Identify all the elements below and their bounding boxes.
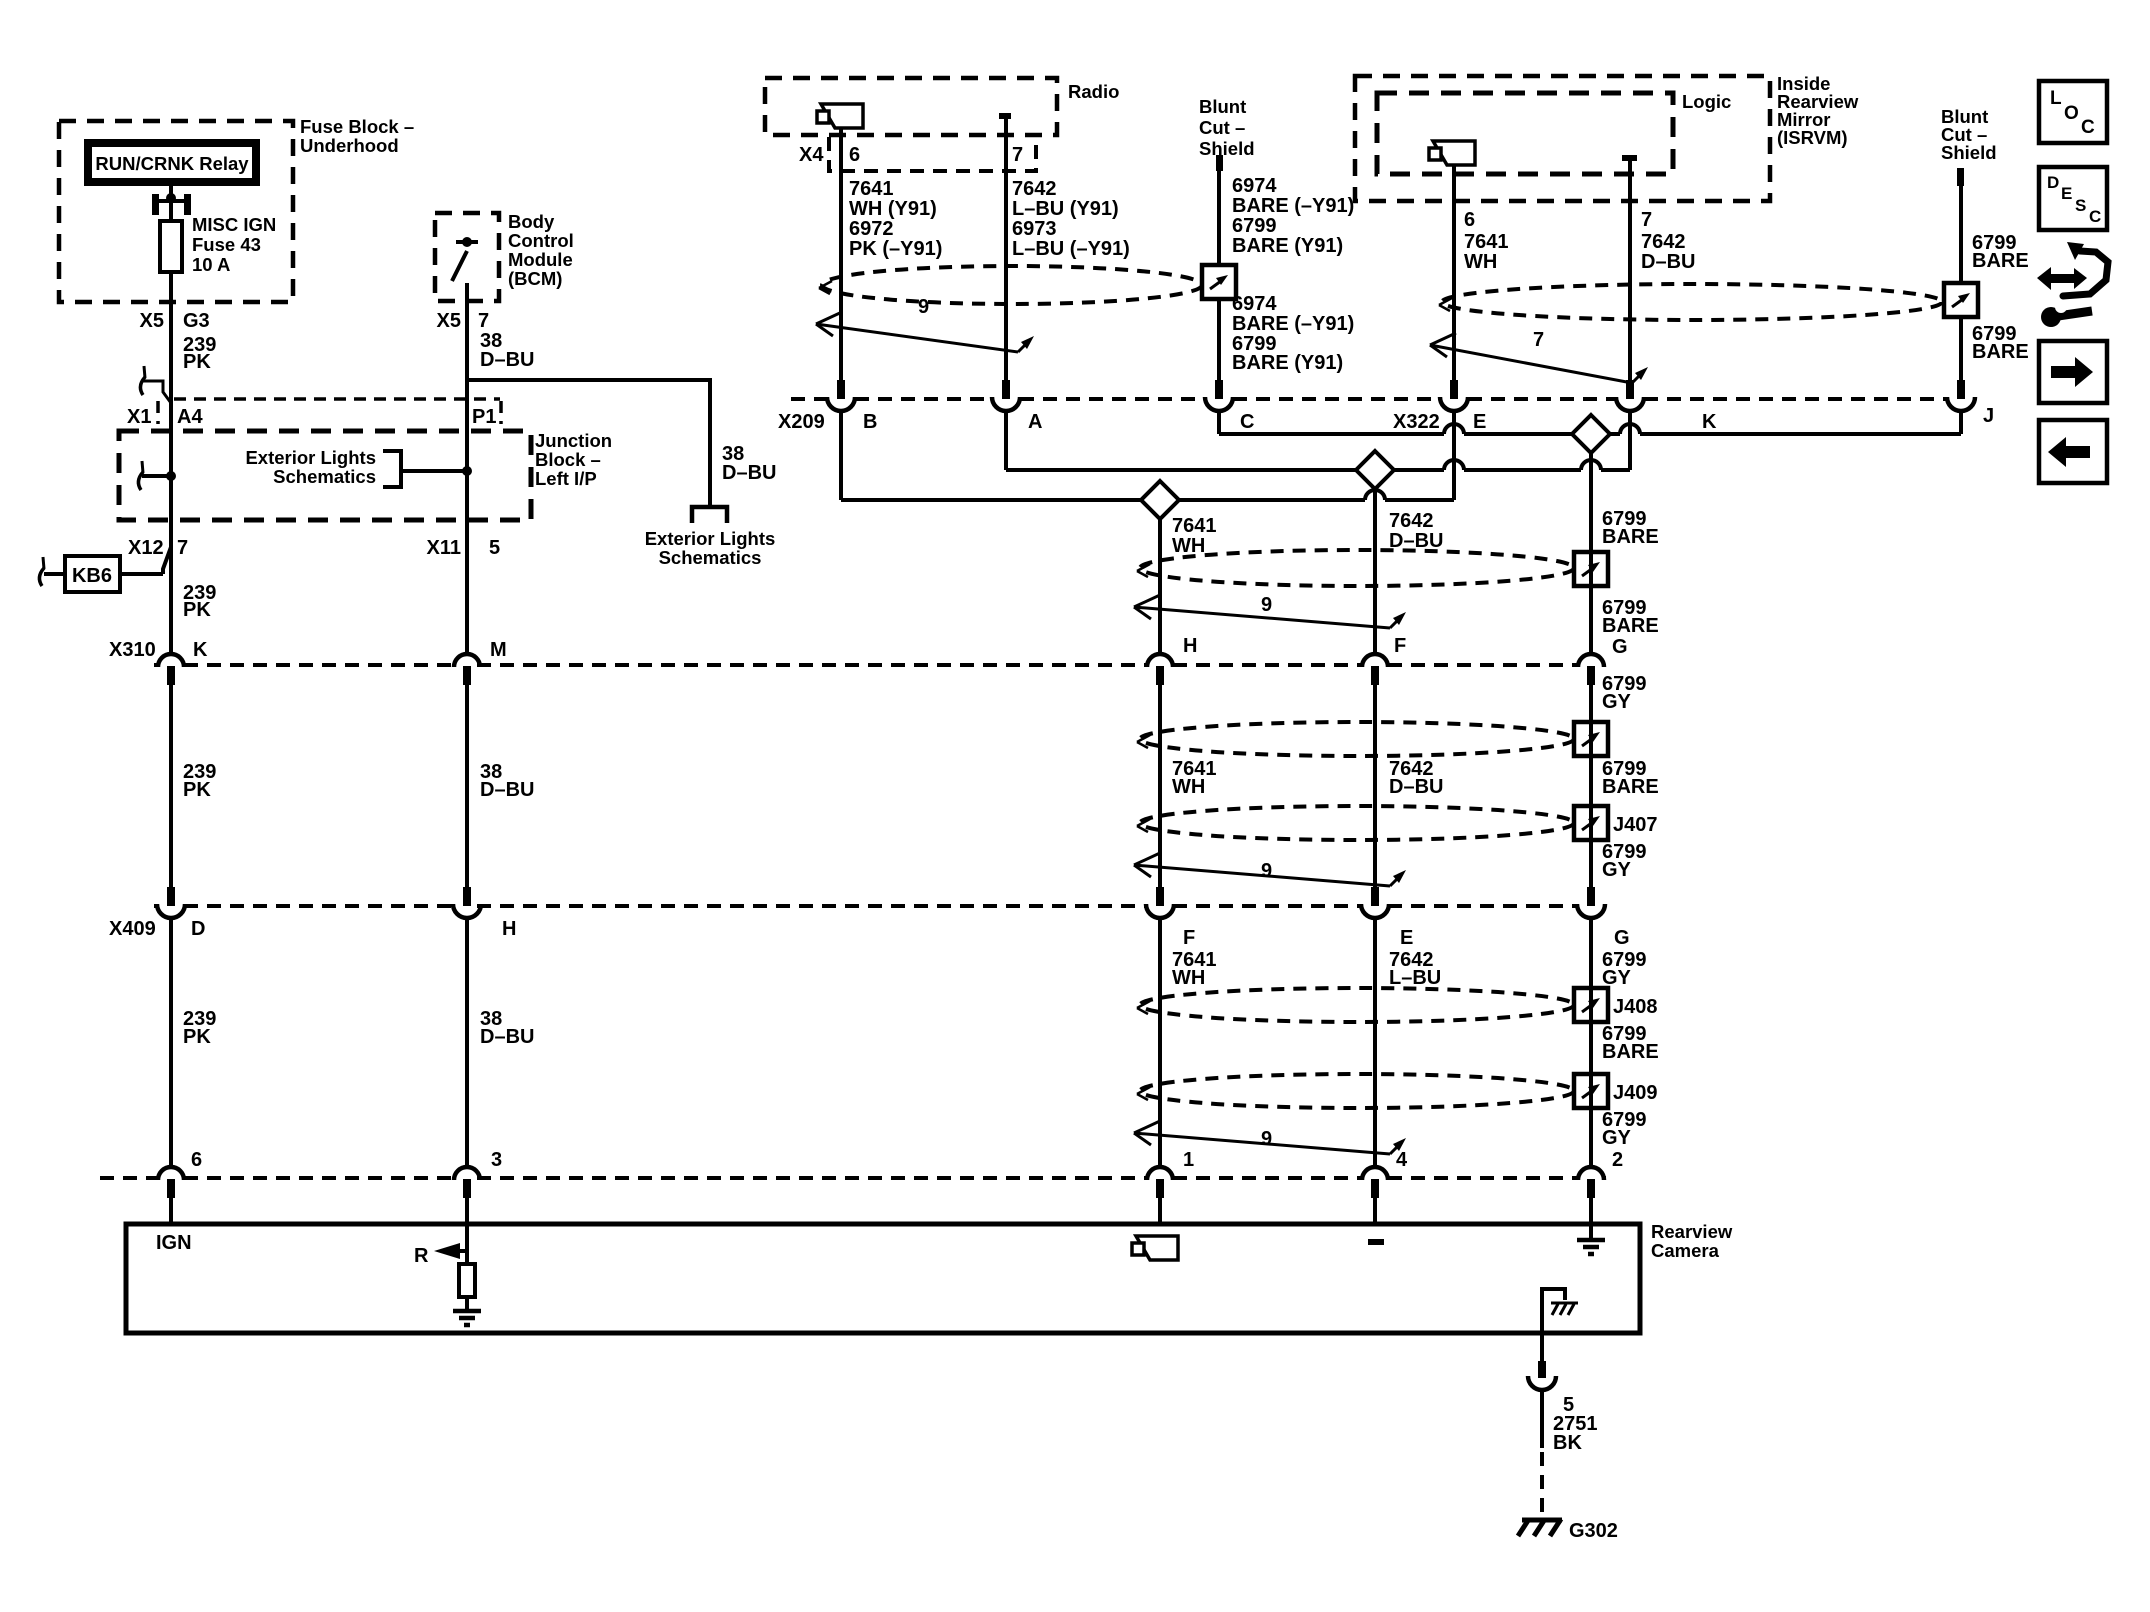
- twisted pair ellipse (mid): [1140, 550, 1574, 586]
- svg-text:2: 2: [1612, 1149, 1623, 1171]
- wire radio pin7 (7642): [1004, 119, 1008, 380]
- svg-text:C: C: [2081, 117, 2095, 138]
- shield ferrule box (mid pair): [1574, 552, 1608, 586]
- off-page staple (exterior lights): [692, 507, 727, 523]
- svg-text:Shield: Shield: [1941, 142, 1997, 163]
- svg-text:6: 6: [849, 144, 860, 166]
- svg-text:Body: Body: [508, 211, 555, 232]
- wire camera ground stub: [1540, 1333, 1544, 1361]
- camera signal ground symbol: [1589, 1224, 1593, 1238]
- svg-text:H: H: [1183, 635, 1197, 657]
- connector pin 1 (camera row): [1147, 1167, 1173, 1180]
- connector pin 6 (camera row): [158, 1167, 184, 1180]
- connector pin G (X310 row): [1578, 654, 1604, 667]
- wire 6799 shield lower (right): [1959, 317, 1963, 380]
- svg-text:X5: X5: [140, 310, 164, 332]
- svg-text:6974: 6974: [1232, 175, 1277, 197]
- svg-text:GY: GY: [1602, 691, 1632, 713]
- connector pin 3 (camera row): [454, 1167, 480, 1180]
- fuse block - underhood (dashed box): [59, 121, 293, 302]
- connector pin 4 (camera row): [1362, 1167, 1388, 1180]
- radio camera icon: [821, 104, 863, 128]
- svg-text:A: A: [1028, 411, 1042, 433]
- camera internal resistor: [459, 1264, 475, 1297]
- svg-text:K: K: [193, 639, 208, 661]
- twist count arrow (radio): [816, 324, 1018, 352]
- camera minus pin: [1368, 1239, 1384, 1245]
- svg-text:(ISRVM): (ISRVM): [1777, 127, 1848, 148]
- relay terminal bracket: [152, 194, 159, 215]
- connector pin H (X310 row): [1147, 654, 1173, 667]
- junction block - left I/P (dashed box): [119, 431, 531, 520]
- radio minus pin: [999, 113, 1011, 119]
- wire pin 1 into camera: [1158, 1196, 1162, 1224]
- svg-text:Exterior Lights: Exterior Lights: [645, 528, 776, 549]
- svg-text:9: 9: [918, 296, 929, 318]
- svg-text:L–BU: L–BU: [1389, 967, 1441, 989]
- splice diamond (6799 net): [1572, 415, 1610, 453]
- terminal hook at X1: [144, 366, 145, 378]
- wire G col X409-camera: [1589, 919, 1593, 1165]
- svg-text:L: L: [2050, 88, 2062, 109]
- terminal hook inside junction block (239 PK tap): [142, 461, 143, 473]
- svg-text:GY: GY: [1602, 859, 1632, 881]
- svg-text:RUN/CRNK Relay: RUN/CRNK Relay: [95, 153, 249, 174]
- inside rearview mirror ISRVM (dashed box): [1355, 76, 1770, 201]
- BCM internal switch: [462, 237, 472, 247]
- svg-text:PK (–Y91): PK (–Y91): [849, 238, 942, 260]
- camera R arrow: [434, 1243, 460, 1259]
- svg-text:G3: G3: [183, 310, 210, 332]
- connector pin E (X409 row): [1371, 887, 1379, 906]
- svg-text:7642: 7642: [1641, 231, 1686, 253]
- svg-text:Schematics: Schematics: [273, 466, 376, 487]
- twist count arrow (mid): [1134, 607, 1390, 628]
- svg-text:PK: PK: [183, 351, 211, 373]
- svg-text:7641: 7641: [1172, 515, 1217, 537]
- svg-text:6: 6: [1464, 209, 1475, 231]
- wire KB6 to col1: [44, 572, 65, 576]
- connector pin C (X209/X322 row): [1215, 380, 1223, 399]
- svg-text:Block –: Block –: [535, 449, 601, 470]
- svg-text:J: J: [1983, 405, 1994, 427]
- wire col1 X310-X409: [169, 684, 173, 887]
- terminal hook at KB6: [43, 557, 44, 569]
- svg-text:7: 7: [1641, 209, 1652, 231]
- icon harness routing (double arrow / wrench): [2047, 274, 2077, 283]
- svg-text:7642: 7642: [1012, 178, 1057, 200]
- svg-text:6973: 6973: [1012, 218, 1057, 240]
- wire col2 X310-X409: [465, 684, 469, 887]
- svg-text:R: R: [414, 1245, 429, 1267]
- splice diamond (7641 net): [1141, 481, 1179, 519]
- svg-text:L–BU (–Y91): L–BU (–Y91): [1012, 238, 1130, 260]
- connector pin F (X409 row): [1156, 887, 1164, 906]
- svg-text:E: E: [1400, 927, 1413, 949]
- connector pin 2 (camera row): [1578, 1167, 1604, 1180]
- wire J down: [1959, 411, 1963, 434]
- svg-text:7: 7: [1012, 144, 1023, 166]
- svg-text:9: 9: [1261, 860, 1272, 882]
- svg-text:PK: PK: [183, 779, 211, 801]
- connector X4 (dashed): [829, 137, 1036, 171]
- wire net 7642 (A to K): [1006, 468, 1356, 472]
- shield ferrule box (ISRVM pair): [1944, 283, 1978, 317]
- connector pin H (X409 row): [463, 887, 471, 906]
- twisted pair ellipse (X310-X409 b): [1140, 806, 1574, 840]
- connector pin B (X209/X322 row): [837, 380, 845, 399]
- connector pin A (X209/X322 row): [1002, 380, 1010, 399]
- svg-text:BARE: BARE: [1602, 615, 1659, 637]
- svg-text:Shield: Shield: [1199, 138, 1255, 159]
- icon arrow left box: [2039, 420, 2107, 483]
- svg-text:WH: WH: [1172, 776, 1205, 798]
- svg-text:H: H: [502, 918, 516, 940]
- connector row rearview camera (dashed): [100, 1176, 158, 1180]
- wire F col X409-camera: [1373, 919, 1377, 1165]
- svg-text:C: C: [1240, 411, 1254, 433]
- svg-text:Left I/P: Left I/P: [535, 468, 597, 489]
- wire ISRVM pin6 (7641): [1452, 165, 1456, 380]
- twisted pair ellipse (X310-X409 a): [1140, 722, 1574, 756]
- wire col1 X409-camera: [169, 919, 173, 1165]
- svg-text:E: E: [2061, 184, 2072, 203]
- svg-text:X11: X11: [427, 537, 461, 559]
- svg-text:J408: J408: [1613, 996, 1658, 1018]
- svg-text:C: C: [2089, 207, 2101, 226]
- rearview camera (box): [126, 1224, 1640, 1333]
- svg-text:KB6: KB6: [72, 565, 112, 587]
- svg-text:BARE: BARE: [1602, 1041, 1659, 1063]
- twist count arrow (below X409): [1134, 1133, 1390, 1154]
- exterior lights schematics bracket (junction block): [383, 451, 401, 487]
- svg-text:D–BU: D–BU: [480, 1026, 534, 1048]
- svg-text:Logic: Logic: [1682, 91, 1731, 112]
- svg-text:O: O: [2064, 103, 2079, 124]
- wire col1 through junction block: [169, 399, 173, 653]
- svg-text:D–BU: D–BU: [1389, 530, 1443, 552]
- svg-text:GY: GY: [1602, 967, 1632, 989]
- svg-text:BK: BK: [1553, 1432, 1582, 1454]
- wire K down: [1628, 411, 1632, 470]
- svg-text:9: 9: [1261, 594, 1272, 616]
- wire A down: [1004, 411, 1008, 470]
- twist count arrow (ISRVM): [1430, 345, 1632, 383]
- svg-text:D–BU: D–BU: [480, 349, 534, 371]
- wire pin 6 into camera: [169, 1196, 173, 1224]
- icon DESC box: [2039, 167, 2107, 230]
- svg-text:WH: WH: [1464, 251, 1497, 273]
- radio (dashed box): [765, 78, 1057, 135]
- svg-text:Fuse Block –: Fuse Block –: [300, 116, 414, 137]
- connector pin 5 (camera ground): [1538, 1361, 1546, 1378]
- wire pin 3 into camera: [465, 1196, 469, 1224]
- svg-text:Camera: Camera: [1651, 1240, 1720, 1261]
- wire pin 2 into camera: [1589, 1196, 1593, 1224]
- svg-text:Junction: Junction: [535, 430, 612, 451]
- camera internal resistor ground: [465, 1297, 469, 1309]
- icon arrow right box: [2039, 341, 2107, 403]
- connector pin J (X209/X322 row): [1957, 380, 1965, 399]
- ISRVM camera icon: [1433, 141, 1475, 165]
- svg-text:D–BU: D–BU: [722, 462, 776, 484]
- svg-text:G: G: [1612, 636, 1628, 658]
- wire net 6799 (C to J): [1219, 432, 1444, 436]
- svg-text:X310: X310: [109, 639, 156, 661]
- connector pin M (X310 row): [454, 654, 480, 667]
- svg-text:5: 5: [489, 537, 500, 559]
- svg-text:6972: 6972: [849, 218, 894, 240]
- svg-text:7641: 7641: [849, 178, 894, 200]
- svg-text:Fuse 43: Fuse 43: [192, 234, 261, 255]
- fuse MISC IGN Fuse 43 10A: [160, 221, 182, 272]
- svg-text:10 A: 10 A: [192, 254, 230, 275]
- ISRVM minus pin: [1622, 155, 1637, 161]
- svg-text:WH: WH: [1172, 967, 1205, 989]
- connector pin F (X310 row): [1362, 654, 1388, 667]
- svg-text:BARE (–Y91): BARE (–Y91): [1232, 313, 1354, 335]
- svg-text:9: 9: [1261, 1128, 1272, 1150]
- wire ISRVM pin7 (7642): [1628, 161, 1632, 380]
- svg-text:PK: PK: [183, 1026, 211, 1048]
- svg-text:BARE: BARE: [1972, 341, 2029, 363]
- svg-text:J409: J409: [1613, 1082, 1658, 1104]
- wire 7641 H col upper: [1158, 519, 1162, 653]
- connector pin D (X409 row): [167, 887, 175, 906]
- logic module (dashed box): [1377, 93, 1673, 174]
- svg-text:BARE: BARE: [1602, 776, 1659, 798]
- wire G col X310-X409: [1589, 684, 1593, 887]
- body control module (dashed box): [435, 213, 499, 301]
- twisted pair ellipse (below X409 b): [1140, 1074, 1574, 1108]
- svg-text:A4: A4: [177, 406, 203, 428]
- svg-text:Exterior Lights: Exterior Lights: [245, 447, 376, 468]
- relay RUN/CRNK (label box): [84, 139, 260, 186]
- wire 6799 G col upper: [1589, 453, 1593, 653]
- svg-text:BARE (Y91): BARE (Y91): [1232, 235, 1343, 257]
- wire fuse to X1 row: [169, 272, 173, 399]
- svg-text:D–BU: D–BU: [1389, 776, 1443, 798]
- svg-text:G302: G302: [1569, 1520, 1618, 1542]
- svg-text:3: 3: [491, 1149, 502, 1171]
- svg-text:4: 4: [1396, 1149, 1408, 1171]
- svg-text:Blunt: Blunt: [1199, 96, 1246, 117]
- wire B down: [839, 411, 843, 500]
- svg-text:F: F: [1394, 635, 1406, 657]
- svg-text:7641: 7641: [1464, 231, 1509, 253]
- twisted pair ellipse (ISRVM): [1442, 284, 1942, 320]
- svg-text:F: F: [1183, 927, 1195, 949]
- svg-text:WH (Y91): WH (Y91): [849, 198, 937, 220]
- ground G302 symbol: [1522, 1518, 1562, 1523]
- connector pin G (X409 row): [1587, 887, 1595, 906]
- svg-text:GY: GY: [1602, 1127, 1632, 1149]
- connector X1/P1 row (dashed): [174, 397, 500, 401]
- wire camera R internal: [465, 1224, 469, 1264]
- svg-text:D–BU: D–BU: [1641, 251, 1695, 273]
- svg-text:1: 1: [1183, 1149, 1194, 1171]
- svg-text:D: D: [191, 918, 205, 940]
- twisted pair ellipse (below X409 a): [1140, 988, 1574, 1022]
- shield ferrule box J407: [1574, 806, 1608, 840]
- splice diamond (7642 net): [1356, 451, 1394, 489]
- svg-text:IGN: IGN: [156, 1232, 192, 1254]
- connector pin K (X310 row): [158, 654, 184, 667]
- svg-text:6: 6: [191, 1149, 202, 1171]
- svg-text:M: M: [490, 639, 507, 661]
- svg-text:BARE: BARE: [1602, 526, 1659, 548]
- connector row X310 (dashed): [154, 663, 158, 667]
- connector pin E (X209/X322 row): [1450, 380, 1458, 399]
- wire 2751 BK: [1540, 1390, 1544, 1448]
- svg-text:X12: X12: [128, 537, 164, 559]
- wire 2751 dashed to ground: [1540, 1452, 1544, 1516]
- wire H col X310-X409: [1158, 684, 1162, 887]
- svg-text:6974: 6974: [1232, 293, 1277, 315]
- svg-text:WH: WH: [1172, 535, 1205, 557]
- svg-text:X209: X209: [778, 411, 825, 433]
- twist count arrow (X310-X409): [1134, 865, 1390, 886]
- svg-text:X1: X1: [127, 406, 151, 428]
- wire 6974/6799 shield lower: [1217, 299, 1221, 380]
- svg-text:Underhood: Underhood: [300, 135, 399, 156]
- svg-text:Control: Control: [508, 230, 574, 251]
- svg-text:Rearview: Rearview: [1651, 1221, 1733, 1242]
- svg-text:X4: X4: [799, 144, 824, 166]
- wire col2 X409-camera: [465, 919, 469, 1165]
- wire pin 4 into camera: [1373, 1196, 1377, 1224]
- svg-text:MISC IGN: MISC IGN: [192, 214, 276, 235]
- connector pin K (X209/X322 row): [1626, 380, 1634, 399]
- svg-text:B: B: [863, 411, 877, 433]
- camera video icon: [1136, 1236, 1178, 1260]
- svg-text:7: 7: [478, 310, 489, 332]
- wire C down: [1217, 411, 1221, 434]
- blunt cut stub (radio shield): [1216, 155, 1223, 171]
- svg-text:BARE (–Y91): BARE (–Y91): [1232, 195, 1354, 217]
- svg-text:BARE (Y91): BARE (Y91): [1232, 352, 1343, 374]
- svg-text:7: 7: [1533, 329, 1544, 351]
- svg-text:(BCM): (BCM): [508, 268, 562, 289]
- svg-text:J407: J407: [1613, 814, 1658, 836]
- svg-text:6799: 6799: [1232, 215, 1277, 237]
- svg-text:Cut –: Cut –: [1199, 117, 1245, 138]
- wire 38 D-BU branch: [467, 380, 710, 507]
- svg-text:PK: PK: [183, 599, 211, 621]
- wire H col X409-camera: [1158, 919, 1162, 1165]
- svg-text:D: D: [2047, 173, 2059, 192]
- svg-text:Module: Module: [508, 249, 573, 270]
- wire 6974/6799 shield upper: [1217, 170, 1221, 265]
- shield ferrule box J409: [1574, 1074, 1608, 1108]
- wire 7642 F col upper: [1373, 489, 1377, 653]
- connector row X209/X322 (dashed): [791, 397, 827, 401]
- shield ferrule box J408: [1574, 988, 1608, 1022]
- wire F col X310-X409: [1373, 684, 1377, 887]
- icon LOC box: [2039, 81, 2107, 143]
- twisted pair ellipse (radio): [822, 266, 1202, 304]
- svg-text:D–BU: D–BU: [480, 779, 534, 801]
- svg-text:Schematics: Schematics: [659, 547, 762, 568]
- svg-text:S: S: [2075, 196, 2086, 215]
- shield ferrule box (radio pair): [1202, 265, 1236, 299]
- wire 6799 shield upper (right): [1959, 186, 1963, 283]
- svg-text:K: K: [1702, 411, 1717, 433]
- wire radio pin6 (7641): [839, 128, 843, 380]
- shield ferrule box (X310-X409 pair 1): [1574, 722, 1608, 756]
- wire relay to fuse: [169, 186, 173, 222]
- svg-text:L–BU (Y91): L–BU (Y91): [1012, 198, 1119, 220]
- wire net 7641 (B to E): [841, 498, 1141, 502]
- connector row X409 (dashed): [154, 904, 158, 908]
- svg-text:X322: X322: [1393, 411, 1440, 433]
- blunt cut stub (right shield): [1957, 168, 1964, 186]
- svg-text:Radio: Radio: [1068, 81, 1119, 102]
- wire E down: [1452, 411, 1456, 500]
- svg-text:7: 7: [177, 537, 188, 559]
- svg-text:G: G: [1614, 927, 1630, 949]
- camera internal chassis ground: [1542, 1289, 1565, 1332]
- svg-text:P1: P1: [472, 406, 496, 428]
- svg-text:X5: X5: [437, 310, 461, 332]
- svg-text:X409: X409: [109, 918, 156, 940]
- svg-text:7642: 7642: [1389, 510, 1434, 532]
- svg-text:E: E: [1473, 411, 1486, 433]
- wire BCM down col2: [465, 283, 469, 653]
- svg-text:BARE: BARE: [1972, 250, 2029, 272]
- KB6 connector box: [65, 556, 120, 592]
